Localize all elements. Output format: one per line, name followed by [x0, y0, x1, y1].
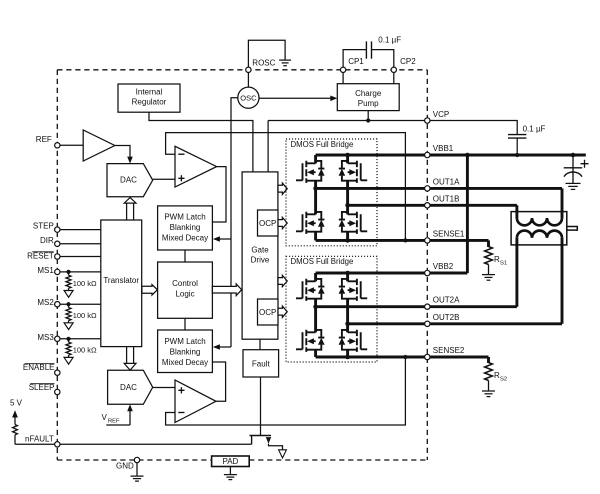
svg-text:PWM Latch: PWM Latch [164, 212, 205, 221]
svg-text:PAD: PAD [222, 457, 238, 466]
svg-text:REF: REF [36, 135, 52, 144]
svg-text:REF: REF [108, 418, 120, 424]
svg-text:SLEEP: SLEEP [29, 383, 55, 392]
svg-text:Translator: Translator [103, 276, 139, 285]
svg-text:OCP: OCP [259, 308, 276, 317]
svg-text:S2: S2 [500, 376, 507, 382]
svg-text:OUT1B: OUT1B [433, 194, 460, 203]
svg-text:MS2: MS2 [37, 298, 54, 307]
svg-text:ENABLE: ENABLE [23, 363, 55, 372]
svg-text:OUT2B: OUT2B [433, 313, 460, 322]
svg-text:Control: Control [172, 279, 198, 288]
svg-text:DMOS Full Bridge: DMOS Full Bridge [291, 257, 354, 266]
svg-text:100 kΩ: 100 kΩ [73, 279, 97, 288]
svg-text:OCP: OCP [259, 219, 276, 228]
svg-text:OSC: OSC [240, 93, 257, 102]
svg-text:Fault: Fault [252, 359, 271, 368]
svg-text:SENSE2: SENSE2 [433, 346, 465, 355]
svg-text:VBB2: VBB2 [433, 262, 454, 271]
svg-text:nFAULT: nFAULT [25, 435, 54, 444]
svg-text:ROSC: ROSC [252, 59, 275, 68]
svg-text:STEP: STEP [33, 222, 54, 231]
svg-text:Blanking: Blanking [170, 223, 201, 232]
svg-text:MS3: MS3 [37, 333, 54, 342]
svg-text:MS1: MS1 [37, 266, 54, 275]
svg-text:RESET: RESET [27, 251, 54, 260]
svg-text:Charge: Charge [355, 89, 382, 98]
svg-text:S1: S1 [500, 260, 507, 266]
svg-text:Logic: Logic [175, 289, 194, 298]
svg-text:VBB1: VBB1 [433, 144, 454, 153]
svg-text:0.1 µF: 0.1 µF [523, 125, 546, 134]
svg-text:VCP: VCP [433, 110, 449, 119]
svg-text:Mixed Decay: Mixed Decay [162, 358, 208, 367]
svg-text:Blanking: Blanking [170, 347, 201, 356]
svg-text:5 V: 5 V [10, 399, 23, 408]
svg-text:DAC: DAC [120, 383, 137, 392]
svg-text:V: V [102, 413, 108, 422]
svg-text:SENSE1: SENSE1 [433, 229, 465, 238]
svg-text:Internal: Internal [136, 87, 163, 96]
svg-text:GND: GND [116, 461, 134, 470]
svg-text:OUT1A: OUT1A [433, 177, 460, 186]
svg-text:CP1: CP1 [348, 57, 364, 66]
svg-text:CP2: CP2 [400, 57, 416, 66]
svg-text:0.1 µF: 0.1 µF [378, 35, 401, 44]
svg-text:Gate: Gate [251, 246, 269, 255]
svg-text:DAC: DAC [120, 176, 137, 185]
svg-text:Pump: Pump [358, 99, 379, 108]
svg-text:100 kΩ: 100 kΩ [73, 311, 97, 320]
svg-text:100 kΩ: 100 kΩ [73, 346, 97, 355]
svg-text:Drive: Drive [251, 256, 270, 265]
svg-text:Mixed Decay: Mixed Decay [162, 233, 208, 242]
svg-text:Regulator: Regulator [132, 97, 167, 106]
svg-text:OUT2A: OUT2A [433, 296, 460, 305]
svg-text:DMOS Full Bridge: DMOS Full Bridge [291, 140, 354, 149]
svg-text:PWM Latch: PWM Latch [164, 337, 205, 346]
svg-text:DIR: DIR [40, 236, 54, 245]
